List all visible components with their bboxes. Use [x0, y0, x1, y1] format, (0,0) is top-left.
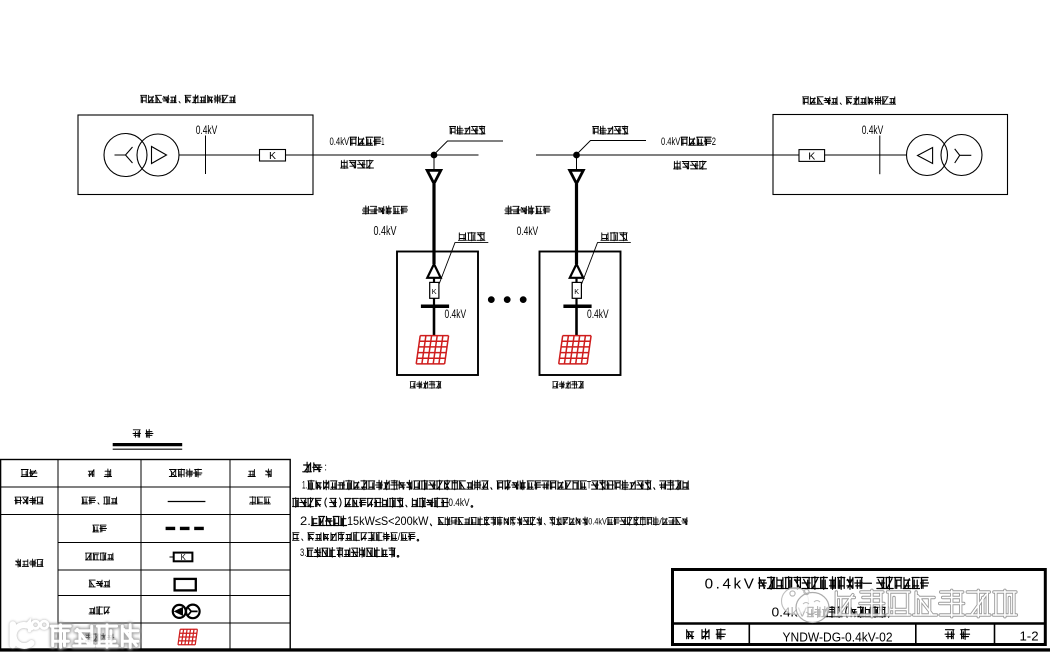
label: 客户电源线路 (right) [505, 206, 550, 214]
svg-text:0.4kV: 0.4kV [330, 136, 350, 148]
breaker arrow (up triangle) PV unit 2 [570, 264, 583, 278]
svg-text:0.4kV: 0.4kV [448, 497, 470, 509]
svg-text:K: K [269, 150, 276, 162]
transformer T1: delta winding circle [137, 134, 179, 176]
svg-text:0.4kV: 0.4kV [705, 576, 757, 593]
transformer T1 (left station): wye winding circle [104, 134, 147, 177]
switch K2 (right station) [799, 150, 825, 162]
station box left: 公用配电站 [78, 115, 313, 195]
busbar 0.4kV (PV unit 2) [563, 304, 591, 308]
svg-text:0.4kV: 0.4kV [196, 125, 218, 137]
leader line: 公共连接点 1 [436, 141, 503, 153]
svg-text:0.4kV: 0.4kV [445, 309, 467, 321]
label: 就近接入 (left) [341, 160, 374, 168]
svg-text:1-2: 1-2 [1019, 629, 1038, 644]
notes block 说明 [303, 462, 326, 472]
svg-text:2: 2 [712, 136, 716, 148]
title block cell: 图 号 [945, 629, 970, 639]
legend title: 图 例 [133, 429, 153, 437]
disconnector arrow (open triangle) on customer line 2 [570, 170, 584, 183]
leader line: 并网点 2 [581, 243, 630, 285]
transformer T2: wye winding circle [941, 135, 982, 176]
label: 分布式光伏 (unit 1) [410, 381, 441, 388]
PV array symbol (red panel, unit 2) [559, 336, 591, 364]
legend: 新建部分 (merged cell) [16, 559, 43, 567]
title block frame [673, 570, 1046, 645]
watermark stamp circle (grey seal) [782, 588, 830, 623]
transformer T2 (right station): delta winding circle [907, 135, 948, 176]
wire: triangle to switch K (PV unit 2) [575, 278, 577, 283]
title block cell: 方案号 [687, 629, 726, 639]
node: common connection point 1 (junction dot) [431, 152, 437, 158]
legend header: 分类 名称 表示符号 备注 [21, 470, 37, 477]
label: 公用配电站、箱式变或台架变 (right) [803, 96, 896, 104]
wire: triangle to switch K (PV unit 1) [433, 278, 435, 283]
svg-text:2.: 2. [300, 514, 311, 528]
wire: customer supply line 2 (thick) [575, 184, 578, 264]
svg-text:K: K [574, 287, 579, 296]
legend table grid [1, 460, 291, 651]
wire: transformer T1 to 0.4kV bus and switch K1 [179, 154, 260, 156]
wire: 0.4kV public line 2 [536, 154, 773, 156]
busbar 0.4kV (PV unit 1) [421, 304, 449, 308]
node: 0.4kV busbar (left station) [205, 136, 207, 175]
wire: switch K2 to transformer T2 [825, 154, 907, 156]
disconnector arrow (open triangle) on customer line 1 [427, 170, 441, 183]
svg-text:0.4kV: 0.4kV [862, 125, 884, 137]
svg-text:/: / [659, 516, 662, 527]
wire: K to busbar (PV unit 2) [575, 298, 577, 306]
svg-text:0.4kV: 0.4kV [587, 309, 609, 321]
PV unit box 2: 分布式光伏 enclosure [540, 252, 621, 376]
wire: 0.4kV public line 1 [313, 154, 479, 156]
station box right: 公用配电站 [773, 115, 1008, 195]
PV array symbol (red panel, unit 1) [416, 336, 448, 364]
wire: K to busbar (PV unit 1) [433, 298, 435, 306]
legend row 5: 变压器 two-circle symbol [89, 607, 110, 615]
wire: busbar to PV array (PV unit 1) [433, 308, 436, 336]
ellipsis dots between PV units [488, 297, 494, 303]
node: common connection point 2 (junction dot) [574, 152, 580, 158]
svg-text:1.: 1. [302, 480, 307, 492]
svg-text:1: 1 [381, 136, 384, 148]
label: 就近接入 (right) [674, 161, 707, 169]
drawing frame bottom bar [0, 648, 1050, 651]
svg-text:K: K [432, 287, 437, 296]
svg-text:K: K [181, 553, 187, 562]
svg-text:K: K [808, 150, 815, 162]
label: 并网点 1 [458, 232, 485, 240]
svg-text:3.: 3. [300, 547, 306, 559]
svg-text:15kW≤S<200kW: 15kW≤S<200kW [347, 514, 429, 528]
svg-text:/: / [398, 532, 401, 543]
svg-text:0.4kV: 0.4kV [374, 224, 397, 238]
label: 客户电源线路 (left) [362, 206, 407, 214]
wire: PCC2 drop link [576, 158, 578, 170]
label: 分布式光伏 (unit 2) [553, 381, 584, 388]
label: 并网点 2 [601, 232, 628, 240]
legend row 1: 原有部分 线路、设备 thin line 细实线 [15, 497, 43, 505]
legend row 3: 开关设备 K-box symbol [85, 553, 113, 561]
legend row 6: 光伏发电 red PV symbol [85, 634, 113, 642]
svg-text:0.4kV: 0.4kV [588, 516, 607, 527]
svg-text:0.4kV: 0.4kV [517, 224, 539, 238]
label: 公用配电站、箱式变或台架变 (left) [141, 95, 236, 103]
breaker arrow (up triangle) PV unit 1 [427, 264, 440, 278]
wire: public line 2 into switch K2 [773, 154, 799, 156]
svg-text:0.4kV: 0.4kV [661, 136, 681, 148]
label: 公共连接点 2 [593, 126, 628, 134]
label: 公共连接点 1 [450, 126, 485, 134]
switch K (grid-connection breaker, PV unit 1) [430, 282, 439, 298]
wire: customer supply line 1 (thick) [432, 184, 435, 264]
legend row 4: 配电站 rectangle symbol [89, 580, 110, 587]
leader line: 并网点 1 [439, 243, 488, 285]
leader line: 公共连接点 2 [579, 141, 647, 153]
switch K1 (left station) [260, 150, 286, 162]
legend row 2: 线路 dashed thick line [93, 525, 107, 532]
wire: busbar to PV array (PV unit 2) [575, 308, 578, 336]
svg-text:T: T [587, 480, 591, 492]
PV unit box 1: 分布式光伏 enclosure [397, 252, 478, 376]
svg-text:YNDW-DG-0.4kV-02: YNDW-DG-0.4kV-02 [783, 630, 893, 645]
switch K (grid-connection breaker, PV unit 2) [572, 282, 581, 298]
wire: PCC1 drop link [433, 158, 435, 170]
node: 0.4kV busbar (right station) [879, 136, 881, 175]
watermark text 阳光工匠光伏网 (grey outline) [834, 590, 1017, 616]
wire: switch K1 to public line 1 [286, 154, 314, 156]
